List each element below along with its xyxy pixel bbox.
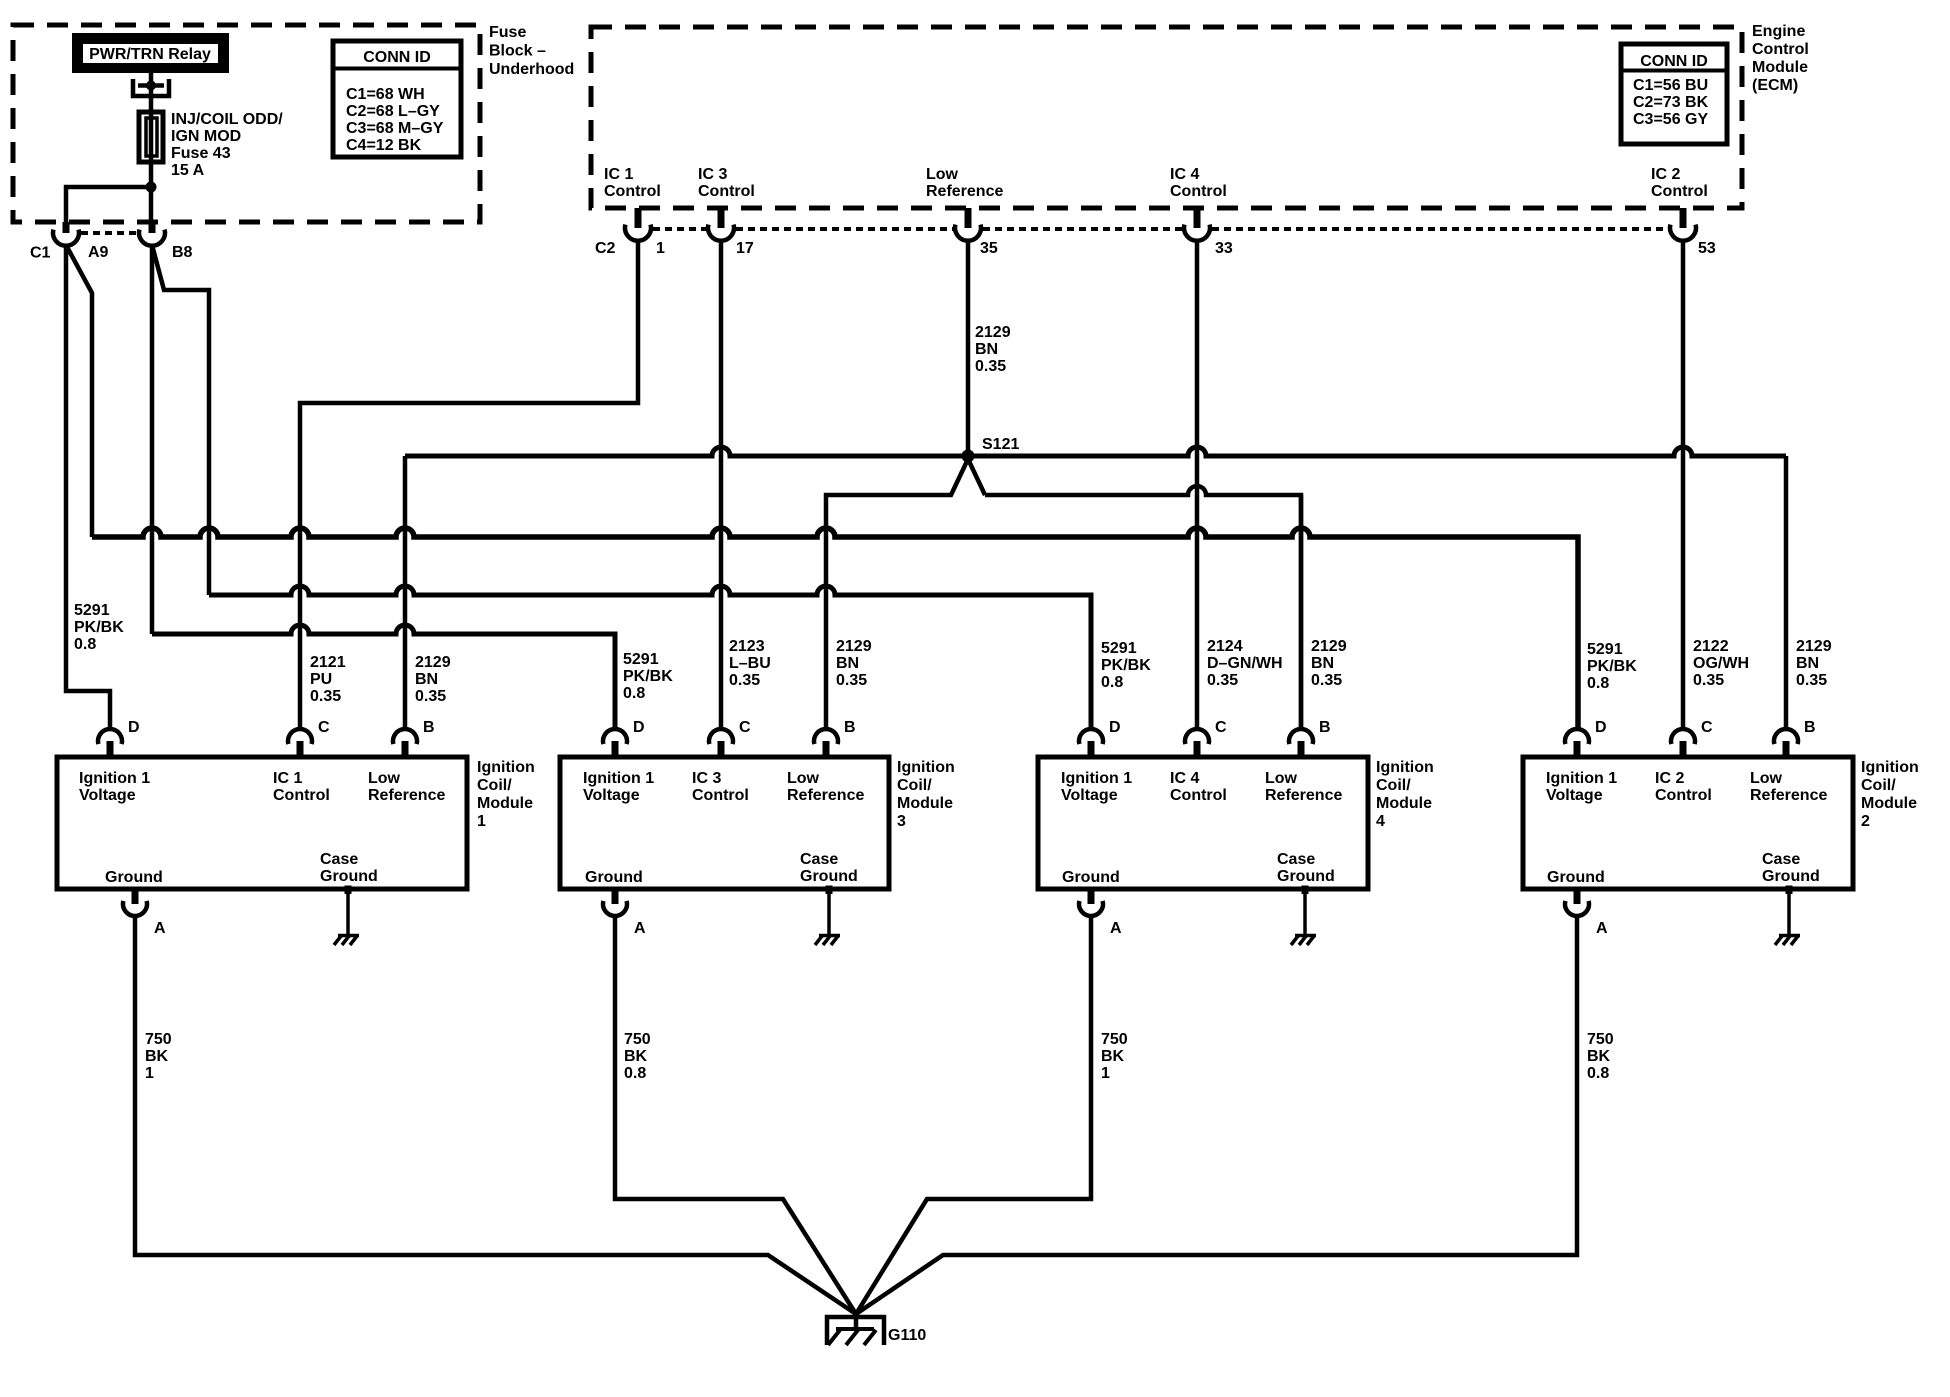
svg-text:L–BU: L–BU	[729, 655, 771, 672]
module 2 case ground wire	[1787, 889, 1791, 935]
wire low reference drop to module1 B	[403, 456, 408, 729]
splice S121	[962, 450, 975, 463]
CONN ID table (fuse block)	[333, 41, 461, 157]
ignition coil/module 1 box	[57, 757, 467, 889]
svg-text:750: 750	[624, 1031, 651, 1048]
svg-text:Engine: Engine	[1752, 23, 1805, 40]
wire 750 BK module2 ground	[856, 916, 1577, 1314]
PWR/TRN relay K (label box)	[72, 33, 229, 73]
svg-text:2129: 2129	[836, 638, 872, 655]
svg-text:2: 2	[1861, 813, 1870, 830]
module 1 case ground wire	[346, 889, 350, 935]
svg-text:Control: Control	[1170, 787, 1227, 804]
module 2 pin A stub	[1574, 889, 1581, 904]
svg-text:Voltage: Voltage	[79, 787, 136, 804]
svg-text:C1=68 WH: C1=68 WH	[346, 86, 425, 103]
svg-text:Ground: Ground	[1062, 869, 1120, 886]
pin A9 stub	[63, 222, 70, 233]
svg-text:0.8: 0.8	[1587, 675, 1609, 692]
module 2 pin D terminal cup	[1565, 729, 1589, 744]
wire 5291 A9 branch to feed bus	[66, 245, 92, 537]
ground G110 symbol	[827, 1317, 884, 1345]
svg-text:Ground: Ground	[1547, 869, 1605, 886]
wire 2121 PU pin1 to module1 C	[300, 241, 638, 729]
svg-text:Control: Control	[604, 183, 661, 200]
svg-text:IC 2: IC 2	[1655, 770, 1684, 787]
wire 5291 bus to module4 D	[209, 586, 1091, 729]
module 2 pin B stub	[1783, 741, 1790, 758]
wire 5291 B8 branch	[152, 245, 209, 595]
module 1 pin C terminal cup	[288, 729, 312, 744]
ignition coil/module 4 box	[1038, 757, 1368, 889]
svg-text:PK/BK: PK/BK	[1101, 657, 1151, 674]
svg-text:Reference: Reference	[1750, 787, 1827, 804]
svg-text:BN: BN	[415, 671, 438, 688]
svg-text:Low: Low	[1750, 770, 1783, 787]
ECM pin 33 terminal cup	[1184, 225, 1210, 241]
ECM pin 1 stub	[635, 208, 642, 228]
module 2 chassis ground symbol	[1779, 934, 1800, 938]
module 4 pin C stub	[1194, 741, 1201, 758]
svg-text:B: B	[1804, 719, 1816, 736]
module 1 pin B stub	[402, 741, 409, 758]
ECM pin 1 terminal cup	[625, 225, 651, 241]
svg-text:PK/BK: PK/BK	[74, 619, 124, 636]
ECM pin 33 stub	[1194, 208, 1201, 228]
svg-text:Ignition: Ignition	[1861, 759, 1919, 776]
svg-text:(ECM): (ECM)	[1752, 77, 1798, 94]
module 3 pin A stub	[612, 889, 619, 904]
module 4 pin D stub	[1088, 741, 1095, 758]
connector C1 dotted line	[81, 231, 137, 235]
relay terminal junction dot	[146, 81, 156, 91]
svg-text:D: D	[1109, 719, 1121, 736]
module 4 pin B terminal cup	[1289, 729, 1313, 744]
svg-text:Control: Control	[1752, 41, 1809, 58]
junction node below fuse	[146, 182, 157, 193]
svg-text:0.35: 0.35	[836, 672, 867, 689]
module 4 case ground wire	[1303, 889, 1307, 935]
svg-text:0.35: 0.35	[415, 688, 446, 705]
svg-text:C2=73 BK: C2=73 BK	[1633, 94, 1709, 111]
fuse F43 body outer	[139, 112, 163, 162]
svg-text:PU: PU	[310, 671, 332, 688]
svg-text:IC 4: IC 4	[1170, 166, 1199, 183]
svg-text:CONN ID: CONN ID	[363, 49, 431, 66]
svg-text:A: A	[1110, 920, 1122, 937]
svg-text:Ignition 1: Ignition 1	[1546, 770, 1617, 787]
svg-text:INJ/COIL ODD/: INJ/COIL ODD/	[171, 111, 283, 128]
svg-text:Voltage: Voltage	[583, 787, 640, 804]
svg-text:2129: 2129	[415, 654, 451, 671]
ECM pin 53 stub	[1680, 208, 1687, 228]
engine control module dashed enclosure	[591, 27, 1742, 208]
svg-text:OG/WH: OG/WH	[1693, 655, 1749, 672]
svg-text:IC 4: IC 4	[1170, 770, 1199, 787]
svg-text:0.35: 0.35	[975, 358, 1006, 375]
svg-text:Underhood: Underhood	[489, 61, 574, 78]
svg-text:Module: Module	[1752, 59, 1808, 76]
svg-text:Voltage: Voltage	[1546, 787, 1603, 804]
svg-text:BN: BN	[836, 655, 859, 672]
svg-text:Control: Control	[698, 183, 755, 200]
svg-text:Case: Case	[320, 851, 358, 868]
svg-text:B: B	[1319, 719, 1331, 736]
module 4 chassis ground symbol	[1295, 934, 1316, 938]
svg-text:Low: Low	[368, 770, 401, 787]
module 3 pin C terminal cup	[709, 729, 733, 744]
module 3 pin D stub	[612, 741, 619, 758]
svg-text:C: C	[318, 719, 330, 736]
wire low reference drop to module2 B	[1784, 456, 1789, 729]
svg-text:B: B	[423, 719, 435, 736]
svg-text:1: 1	[656, 240, 665, 257]
svg-text:IC 3: IC 3	[698, 166, 727, 183]
wire 2129 BN low reference bus	[405, 447, 1786, 456]
svg-text:Reference: Reference	[1265, 787, 1342, 804]
module 3 pin B stub	[823, 741, 830, 758]
svg-text:Coil/: Coil/	[477, 777, 512, 794]
svg-text:3: 3	[897, 813, 906, 830]
svg-text:Coil/: Coil/	[1376, 777, 1411, 794]
svg-text:Module: Module	[477, 795, 533, 812]
svg-text:0.8: 0.8	[1587, 1065, 1609, 1082]
svg-text:BN: BN	[1311, 655, 1334, 672]
svg-text:BN: BN	[1796, 655, 1819, 672]
svg-text:B8: B8	[172, 244, 193, 261]
ECM pin 35 stub	[965, 208, 972, 228]
svg-text:Control: Control	[1651, 183, 1708, 200]
svg-text:Control: Control	[692, 787, 749, 804]
module 4 pin A terminal cup	[1079, 901, 1103, 916]
svg-text:Case: Case	[1762, 851, 1800, 868]
svg-text:Ignition 1: Ignition 1	[1061, 770, 1132, 787]
module 2 pin C terminal cup	[1671, 729, 1695, 744]
svg-text:0.35: 0.35	[729, 672, 760, 689]
svg-text:750: 750	[1587, 1031, 1614, 1048]
svg-text:A: A	[634, 920, 646, 937]
svg-text:Control: Control	[273, 787, 330, 804]
CONN ID table (ECM)	[1621, 44, 1727, 144]
svg-text:2123: 2123	[729, 638, 765, 655]
svg-text:2129: 2129	[1311, 638, 1347, 655]
module 3 chassis ground symbol	[819, 934, 840, 938]
svg-text:Ignition: Ignition	[897, 759, 955, 776]
svg-text:4: 4	[1376, 813, 1385, 830]
svg-text:Voltage: Voltage	[1061, 787, 1118, 804]
svg-text:5291: 5291	[623, 651, 659, 668]
svg-text:0.8: 0.8	[74, 636, 96, 653]
svg-text:BK: BK	[145, 1048, 169, 1065]
module 3 pin B terminal cup	[814, 729, 838, 744]
ECM pin 53 terminal cup	[1670, 225, 1696, 241]
wire 2123 L-BU pin17 to module3 C	[719, 241, 724, 729]
svg-text:53: 53	[1698, 240, 1716, 257]
svg-text:Ground: Ground	[320, 868, 378, 885]
svg-text:1: 1	[145, 1065, 154, 1082]
wire 2124 D-GN/WH pin33 to module4 C	[1195, 241, 1200, 729]
svg-text:Reference: Reference	[787, 787, 864, 804]
svg-text:A: A	[154, 920, 166, 937]
svg-text:Low: Low	[787, 770, 820, 787]
module 4 case ground node	[1302, 886, 1309, 895]
svg-text:C: C	[1701, 719, 1713, 736]
svg-text:S121: S121	[982, 436, 1019, 453]
svg-text:0.35: 0.35	[310, 688, 341, 705]
module 3 case ground node	[826, 886, 833, 895]
svg-text:Fuse: Fuse	[489, 24, 526, 41]
svg-text:35: 35	[980, 240, 998, 257]
wire 750 BK module1 ground	[135, 916, 856, 1314]
svg-text:Low: Low	[1265, 770, 1298, 787]
svg-text:D: D	[633, 719, 645, 736]
module 1 case ground node	[345, 886, 352, 895]
svg-text:C1=56 BU: C1=56 BU	[1633, 77, 1708, 94]
wire 5291 B8 to module3 D	[150, 245, 155, 634]
svg-text:B: B	[844, 719, 856, 736]
svg-text:33: 33	[1215, 240, 1233, 257]
svg-text:Ground: Ground	[585, 869, 643, 886]
svg-text:0.8: 0.8	[624, 1065, 646, 1082]
wire 5291 A9 to module1 D (ignition 1 voltage)	[66, 245, 110, 729]
svg-text:PWR/TRN Relay: PWR/TRN Relay	[89, 46, 211, 63]
svg-text:Control: Control	[1655, 787, 1712, 804]
wire 750 BK module3 ground	[615, 916, 856, 1314]
svg-text:0.35: 0.35	[1796, 672, 1827, 689]
svg-text:BN: BN	[975, 341, 998, 358]
svg-text:D: D	[1595, 719, 1607, 736]
svg-text:Ignition 1: Ignition 1	[583, 770, 654, 787]
wire 5291 feed bus to module2 D	[92, 528, 1578, 729]
svg-text:Ground: Ground	[1277, 868, 1335, 885]
svg-text:C2=68 L–GY: C2=68 L–GY	[346, 103, 440, 120]
svg-text:0.35: 0.35	[1207, 672, 1238, 689]
svg-text:Module: Module	[1376, 795, 1432, 812]
fuse F43 body inner	[146, 118, 157, 156]
svg-text:Case: Case	[800, 851, 838, 868]
module 1 chassis ground symbol	[338, 934, 359, 938]
svg-text:Reference: Reference	[368, 787, 445, 804]
wire 2129 BN pin35 to splice S121	[966, 241, 971, 456]
svg-text:2129: 2129	[975, 324, 1011, 341]
svg-text:A9: A9	[88, 244, 109, 261]
wire S121 branch to module4 B	[968, 459, 985, 495]
module 2 pin B terminal cup	[1774, 729, 1798, 744]
svg-text:Module: Module	[1861, 795, 1917, 812]
svg-text:15 A: 15 A	[171, 162, 205, 179]
pin B8 stub	[149, 222, 156, 233]
svg-text:0.8: 0.8	[1101, 674, 1123, 691]
module 4 pin B stub	[1298, 741, 1305, 758]
svg-text:BK: BK	[624, 1048, 648, 1065]
svg-text:Coil/: Coil/	[897, 777, 932, 794]
svg-text:Ignition: Ignition	[1376, 759, 1434, 776]
module 3 case ground wire	[827, 889, 831, 935]
svg-text:IGN MOD: IGN MOD	[171, 128, 241, 145]
connector C2 dotted line	[653, 227, 706, 231]
svg-text:IC 1: IC 1	[604, 166, 633, 183]
svg-text:0.35: 0.35	[1693, 672, 1724, 689]
svg-text:Block –: Block –	[489, 43, 546, 60]
svg-text:Fuse 43: Fuse 43	[171, 145, 231, 162]
svg-text:Low: Low	[926, 166, 959, 183]
svg-text:Ground: Ground	[105, 869, 163, 886]
svg-text:C1: C1	[30, 245, 51, 262]
ECM pin 17 terminal cup	[708, 225, 734, 241]
svg-text:Coil/: Coil/	[1861, 777, 1896, 794]
wire relay to fuse	[149, 73, 154, 187]
module 1 pin D terminal cup	[98, 729, 122, 744]
svg-text:IC 2: IC 2	[1651, 166, 1680, 183]
svg-text:Case: Case	[1277, 851, 1315, 868]
pin B8 terminal cup	[139, 230, 165, 246]
svg-text:PK/BK: PK/BK	[1587, 658, 1637, 675]
relay output terminal bracket	[133, 79, 169, 96]
svg-text:C: C	[739, 719, 751, 736]
ignition coil/module 3 box	[560, 757, 889, 889]
module 1 pin D stub	[107, 741, 114, 758]
module 4 pin D terminal cup	[1079, 729, 1103, 744]
module 1 pin A terminal cup	[123, 901, 147, 916]
module 3 pin D terminal cup	[603, 729, 627, 744]
wire 2122 OG/WH pin53 to module2 C	[1681, 241, 1686, 729]
svg-text:2129: 2129	[1796, 638, 1832, 655]
ECM pin 17 stub	[718, 208, 725, 228]
svg-text:PK/BK: PK/BK	[623, 668, 673, 685]
module 2 case ground node	[1786, 886, 1793, 895]
svg-text:CONN ID: CONN ID	[1640, 53, 1708, 70]
svg-text:A: A	[1596, 920, 1608, 937]
svg-text:BK: BK	[1101, 1048, 1125, 1065]
svg-text:Control: Control	[1170, 183, 1227, 200]
svg-text:D–GN/WH: D–GN/WH	[1207, 655, 1283, 672]
svg-text:Ignition: Ignition	[477, 759, 535, 776]
module 1 pin A stub	[132, 889, 139, 904]
svg-text:Module: Module	[897, 795, 953, 812]
pin A9 terminal cup	[53, 230, 79, 246]
svg-text:Ground: Ground	[1762, 868, 1820, 885]
svg-text:C3=68 M–GY: C3=68 M–GY	[346, 120, 444, 137]
wire S121 branch to module3 B	[826, 459, 968, 729]
svg-text:0.35: 0.35	[1311, 672, 1342, 689]
svg-text:5291: 5291	[1587, 641, 1623, 658]
svg-text:IC 1: IC 1	[273, 770, 302, 787]
module 1 pin C stub	[297, 741, 304, 758]
svg-text:IC 3: IC 3	[692, 770, 721, 787]
svg-text:Ignition 1: Ignition 1	[79, 770, 150, 787]
module 3 pin A terminal cup	[603, 901, 627, 916]
svg-text:Ground: Ground	[800, 868, 858, 885]
svg-text:G110: G110	[888, 1327, 926, 1344]
ECM pin 35 terminal cup	[955, 225, 981, 241]
svg-text:750: 750	[1101, 1031, 1128, 1048]
wire fuse node to pin B8	[149, 187, 154, 222]
svg-text:D: D	[128, 719, 140, 736]
svg-text:C2: C2	[595, 240, 616, 257]
svg-text:5291: 5291	[1101, 640, 1137, 657]
module 2 pin D stub	[1574, 741, 1581, 758]
svg-text:C4=12 BK: C4=12 BK	[346, 137, 422, 154]
svg-text:2121: 2121	[310, 654, 346, 671]
svg-text:1: 1	[1101, 1065, 1110, 1082]
wire module4 B drop	[1299, 495, 1304, 729]
svg-text:C3=56 GY: C3=56 GY	[1633, 111, 1708, 128]
module 2 pin A terminal cup	[1565, 901, 1589, 916]
fuse block - underhood dashed enclosure	[13, 25, 480, 222]
svg-text:BK: BK	[1587, 1048, 1611, 1065]
wire fuse node to pin A9	[66, 187, 151, 222]
module 2 pin C stub	[1680, 741, 1687, 758]
module 4 pin C terminal cup	[1185, 729, 1209, 744]
module 1 pin B terminal cup	[393, 729, 417, 744]
svg-text:17: 17	[736, 240, 754, 257]
module 3 pin C stub	[718, 741, 725, 758]
ground G110 stem	[854, 1314, 859, 1330]
svg-text:1: 1	[477, 813, 486, 830]
svg-text:750: 750	[145, 1031, 172, 1048]
svg-text:5291: 5291	[74, 602, 110, 619]
svg-text:2124: 2124	[1207, 638, 1243, 655]
relay contact bar	[138, 83, 164, 88]
wire 750 BK module4 ground	[856, 916, 1091, 1314]
svg-text:0.8: 0.8	[623, 685, 645, 702]
ignition coil/module 2 box	[1523, 757, 1853, 889]
svg-text:C: C	[1215, 719, 1227, 736]
svg-text:Reference: Reference	[926, 183, 1003, 200]
svg-text:2122: 2122	[1693, 638, 1729, 655]
module 4 pin A stub	[1088, 889, 1095, 904]
